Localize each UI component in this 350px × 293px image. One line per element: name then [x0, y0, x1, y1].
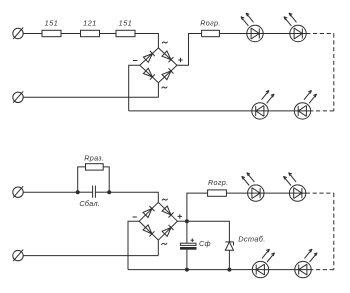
dashed wire LED6 to right edge [306, 192, 334, 194]
capacitor Cf (electrolytic) [180, 243, 197, 250]
wire node B to bridge 2 top (~) [109, 192, 158, 202]
wire node C up to Rogr2 [187, 193, 208, 221]
Cf polarity + mark [191, 238, 195, 242]
node C junction dot (+) [185, 219, 189, 223]
node − of bridge 1 [133, 60, 137, 62]
node ~ bottom of bridge 2 [161, 243, 167, 245]
diode VD1 upper-right (~top to +) [162, 51, 173, 62]
wire node C to zener Dstab [187, 221, 230, 242]
wire LED4 to LED3 [268, 110, 294, 112]
dashed wire to LED8 [311, 269, 334, 271]
wire X2 to bridge 1 bottom (~) [23, 96, 158, 98]
wire LED5 to LED6 [264, 192, 289, 194]
wire node C down to Cf [186, 221, 188, 243]
terminal X4 [13, 250, 23, 261]
dashed wire right edge down (lower circuit) [333, 193, 335, 270]
wire Cbal to node B [95, 191, 109, 193]
wire LED3 return to bridge 1 − [129, 110, 252, 112]
svg-text:Сбал.: Сбал. [79, 199, 100, 208]
wire Rraz down to node B [103, 167, 109, 192]
svg-text:Rогр.: Rогр. [200, 19, 220, 28]
resistor Rogr (top circuit) body [202, 30, 220, 36]
diode VD2 lower-right (~bottom to +) [162, 225, 174, 237]
wire node A up to Rraz [78, 167, 86, 192]
wire LED7 along bottom rail [128, 269, 252, 271]
terminal X3 [13, 186, 23, 197]
node A junction dot [76, 190, 80, 194]
LED HL2 [284, 13, 306, 42]
svg-text:121: 121 [83, 19, 97, 28]
wire R1 to R2 [61, 33, 81, 35]
wire R3 to bridge 1 top (~) [135, 34, 158, 49]
diode VD2 upper-right (~top to +) [162, 206, 174, 218]
wire bottom rail up to bridge 2 − vertex [128, 221, 139, 269]
node ~ top of bridge 1 [162, 42, 168, 44]
diode VD2 upper-left (− to ~top) [143, 206, 155, 218]
dashed wire right edge down (top circuit) [333, 34, 335, 111]
node + of bridge 2 [178, 214, 182, 218]
wire bridge 1 + to Rogr1 [177, 34, 202, 66]
wire R2 to R3 [100, 33, 117, 35]
svg-text:Rраз.: Rраз. [84, 154, 104, 163]
LED HL5 [242, 173, 264, 202]
LED HL7 [252, 249, 274, 278]
resistor Rraz body [86, 164, 104, 170]
wire bridge 2 + to node C [177, 220, 187, 222]
svg-text:Rогр.: Rогр. [208, 178, 228, 187]
wire X1 to R1 [23, 33, 42, 35]
svg-text:151: 151 [119, 19, 133, 28]
terminal X1 [13, 28, 23, 39]
wire X3 to node A [23, 191, 77, 193]
diode VD1 lower-left (− to ~bottom) [143, 68, 154, 79]
LED HL4 [294, 91, 316, 120]
node B junction dot [107, 190, 111, 194]
svg-text:Сф: Сф [199, 239, 211, 248]
svg-text:151: 151 [45, 19, 59, 28]
resistor R 151 (first) body [42, 30, 61, 36]
node ~ top of bridge 2 [162, 199, 168, 201]
LED HL3 [252, 91, 274, 120]
wire LED8 to LED7 [269, 269, 295, 271]
wire Cf to bottom rail node D [186, 250, 188, 270]
wire node A to Cbal [78, 191, 93, 193]
capacitor Cbal plates [93, 186, 96, 198]
wire LED1 to LED2 [263, 33, 290, 35]
LED HL8 [295, 249, 317, 278]
resistor R 151 (second) body [116, 30, 135, 36]
svg-text:Dстаб.: Dстаб. [238, 235, 266, 244]
resistor R 121 body [81, 30, 100, 36]
wire up into bridge 2 bottom vertex [157, 240, 159, 256]
dashed wire to LED4 [311, 110, 334, 112]
bridge rectifier VD1 outline [140, 48, 177, 83]
wire Rogr2 to LED5 [226, 192, 247, 194]
node + of bridge 1 [178, 58, 182, 62]
node − of bridge 2 [133, 216, 137, 218]
resistor Rogr (lower circuit) body [208, 190, 227, 196]
terminal X2 [13, 91, 23, 102]
diode VD1 upper-left (− to ~top) [143, 51, 154, 62]
diode VD2 lower-left (− to ~bottom) [143, 225, 155, 237]
wire Dstab to bottom rail node E [228, 250, 230, 269]
wire Rogr1 to LED1 [219, 33, 246, 35]
diode VD1 lower-right (~bottom to +) [162, 68, 173, 79]
node D junction dot [185, 268, 189, 272]
bridge rectifier VD2 outline [139, 202, 177, 240]
node E junction dot [227, 268, 231, 272]
wire X4 to bridge 2 bottom (~) [23, 255, 158, 257]
dashed wire LED2 to right edge [306, 33, 334, 35]
LED HL6 [284, 173, 306, 202]
wire up to bridge 1 − vertex [129, 65, 140, 111]
LED HL1 [241, 13, 263, 42]
zener diode Dstab [225, 242, 233, 250]
node ~ bottom of bridge 1 [162, 87, 168, 89]
wire up into bridge 1 bottom vertex [157, 83, 159, 98]
